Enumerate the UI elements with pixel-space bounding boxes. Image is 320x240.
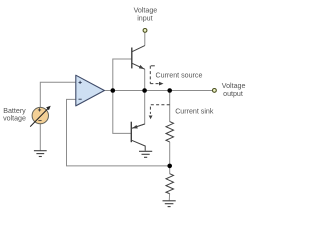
wire R2 bottom to ground — [168, 194, 170, 201]
transistor Q1 (NPN current source) — [132, 46, 145, 70]
ground under Q2 collector — [139, 151, 152, 157]
wire node B to resistor R2 — [169, 166, 171, 174]
svg-text:Current source: Current source — [156, 71, 203, 79]
wire Q1 emitter to output node — [144, 69, 146, 90]
wire output node to Q2 emitter — [132, 91, 145, 129]
dashed arrow current source — [150, 66, 163, 86]
wire battery bottom to ground — [39, 124, 41, 151]
node at emitter junction — [142, 88, 147, 93]
resistor R2 — [166, 174, 174, 194]
transistor Q2 (PNP current sink) — [131, 122, 145, 151]
battery voltage source B1 — [30, 106, 51, 127]
wire Q1 collector to voltage input terminal — [144, 33, 146, 46]
op-amp U1 — [76, 75, 105, 106]
wire op-amp output to voltage output terminal — [104, 90, 212, 92]
node at resistor branch — [167, 88, 172, 93]
wire R1 bottom to node B — [169, 142, 171, 166]
node B feedback junction — [167, 164, 172, 169]
node at op-amp output — [111, 88, 116, 93]
svg-text:Current sink: Current sink — [175, 108, 214, 116]
svg-text:Voltage: Voltage — [134, 6, 158, 14]
terminal voltage output — [213, 89, 217, 93]
wire feedback from op-amp - input to node B — [67, 99, 170, 165]
dashed arrow current sink — [149, 105, 170, 120]
wire battery top to op-amp + input — [40, 82, 76, 107]
ground under battery — [34, 151, 47, 157]
wire op-amp output node to transistor bases — [113, 59, 132, 133]
wire output node to resistor R1 — [169, 91, 171, 122]
svg-text:Voltage: Voltage — [222, 82, 246, 90]
svg-text:input: input — [137, 14, 152, 22]
terminal voltage input — [143, 29, 147, 33]
svg-text:voltage: voltage — [3, 115, 26, 123]
ground under R2 — [163, 201, 176, 207]
svg-text:output: output — [223, 90, 243, 98]
resistor R1 — [166, 122, 174, 142]
